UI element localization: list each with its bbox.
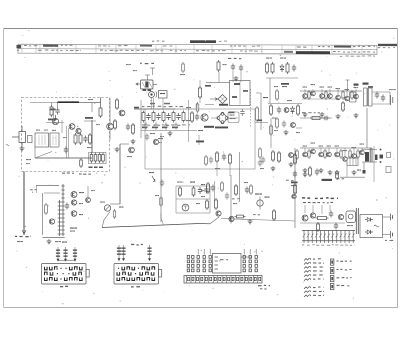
ground xyxy=(352,170,357,175)
connector CN3 label xyxy=(258,285,270,287)
diagonal wire xyxy=(35,152,52,159)
driver module U1 xyxy=(346,211,356,223)
legend battery symbols xyxy=(331,259,334,290)
tuner top rail heavy xyxy=(58,101,79,103)
transistor Q2 xyxy=(69,124,75,130)
input trimmer C1 xyxy=(28,136,33,143)
resistor R11 xyxy=(152,111,155,123)
label xyxy=(70,228,77,229)
capacitor C29 xyxy=(329,211,333,218)
capacitor C31 xyxy=(209,157,213,164)
IF lower bus xyxy=(141,130,197,132)
transistor Q25 xyxy=(71,200,76,205)
resistor R13 xyxy=(172,111,175,123)
label stems xyxy=(304,205,306,213)
wire xyxy=(91,120,93,153)
label row xyxy=(142,124,190,126)
ground xyxy=(354,113,359,118)
ground xyxy=(336,114,341,119)
wire xyxy=(140,100,142,138)
label xyxy=(287,100,292,101)
ground xyxy=(271,166,276,171)
wire xyxy=(346,89,348,96)
resistor R51 xyxy=(270,124,273,136)
label xyxy=(272,118,276,119)
rail xyxy=(300,90,362,92)
label xyxy=(266,58,272,59)
right end text xyxy=(389,89,396,90)
legend text column xyxy=(313,258,324,296)
connector B lead 2 xyxy=(121,245,125,261)
coil can T1 xyxy=(35,133,49,147)
rail xyxy=(300,147,372,149)
tuner module dashed enclosure xyxy=(22,98,110,172)
ground xyxy=(234,76,239,81)
connector CN3 pin strip xyxy=(184,276,262,284)
transistor Q3 xyxy=(76,128,81,133)
resistor R7 xyxy=(116,98,119,110)
resistor R28 xyxy=(215,198,218,210)
resistor R48 xyxy=(297,104,300,116)
resistor R14 xyxy=(182,111,185,123)
capacitor C37 xyxy=(160,180,164,187)
label xyxy=(360,144,365,145)
transistor Q30 xyxy=(201,114,208,121)
mid rail xyxy=(268,103,302,105)
capacitor C24 xyxy=(222,154,226,161)
arrow mark xyxy=(22,230,26,234)
wire xyxy=(51,103,53,106)
resistor R39 xyxy=(45,203,48,215)
resistor R31 xyxy=(207,182,210,194)
transistor Q26 xyxy=(49,219,54,224)
wire xyxy=(320,148,322,152)
resistor R19 xyxy=(286,62,289,74)
pot labels xyxy=(119,207,124,208)
label dark xyxy=(291,182,298,184)
wire xyxy=(383,234,391,236)
capacitor C5 xyxy=(126,124,130,131)
resistor R8 xyxy=(114,119,117,130)
IF can T3 xyxy=(230,81,251,106)
filter feet xyxy=(143,89,147,91)
transistor Q18 xyxy=(327,152,332,157)
ground xyxy=(303,168,308,173)
resistor R15 xyxy=(191,111,194,123)
wire xyxy=(296,127,302,129)
resistor R54 xyxy=(196,102,199,113)
capacitor C3 xyxy=(83,136,87,143)
wire xyxy=(383,216,391,218)
label xyxy=(228,58,241,59)
label text xyxy=(62,172,74,174)
switch column S4a xyxy=(243,249,245,272)
lower rail xyxy=(300,117,332,119)
wire xyxy=(66,126,68,158)
ground xyxy=(303,112,308,117)
wire xyxy=(205,104,214,106)
resistor R49 xyxy=(276,117,279,129)
tall wire xyxy=(347,80,349,91)
resistor R40 xyxy=(316,217,329,220)
relay box K1 xyxy=(213,254,242,274)
table caption text xyxy=(152,40,227,43)
resistor R1 xyxy=(50,105,53,117)
label xyxy=(303,146,308,147)
resistor R47 xyxy=(270,104,273,116)
transistor Q37 xyxy=(86,198,91,203)
ground xyxy=(284,130,289,135)
label dark xyxy=(48,119,56,121)
label dark xyxy=(257,120,262,122)
IF transformer T4 xyxy=(364,88,368,106)
terminal strip xyxy=(347,158,358,166)
switch column S3a xyxy=(197,249,199,272)
transistor Q14 xyxy=(354,94,359,99)
resistor xyxy=(357,149,359,159)
resistor R44 xyxy=(250,184,253,195)
wire xyxy=(329,89,331,94)
ladder labels xyxy=(302,244,352,246)
capacitor C8 xyxy=(166,113,170,120)
resistor R41 xyxy=(317,222,320,232)
transistor Q34 xyxy=(153,139,158,144)
transistor Q20 xyxy=(343,157,348,162)
resistor xyxy=(351,90,353,100)
connector B lead 3 xyxy=(147,245,151,261)
wire xyxy=(216,163,218,176)
wire xyxy=(346,162,348,177)
capacitor C20 xyxy=(380,155,384,159)
label xyxy=(263,97,268,98)
title block table xyxy=(16,44,377,54)
label xyxy=(244,182,248,183)
table right header text xyxy=(378,44,397,48)
label row xyxy=(302,197,310,199)
wire xyxy=(214,181,216,202)
ground xyxy=(248,219,253,224)
switch column S2b xyxy=(192,256,194,272)
transistor Q8 xyxy=(303,94,308,99)
label xyxy=(30,189,37,190)
dashed vertical xyxy=(250,89,252,127)
wire xyxy=(294,148,296,228)
switch column S2a xyxy=(187,256,189,272)
wire xyxy=(153,98,155,109)
wire xyxy=(353,148,355,154)
resistor xyxy=(325,90,327,100)
capacitor C28 xyxy=(65,203,69,210)
lead label xyxy=(62,242,67,243)
diode D1 xyxy=(280,64,284,72)
transistor Q28 xyxy=(310,213,315,218)
tick mark xyxy=(6,144,9,146)
speaker lead xyxy=(363,162,365,171)
wire xyxy=(53,108,55,120)
resistor xyxy=(340,149,342,159)
transistor Q24 xyxy=(71,192,77,198)
speaker label LS xyxy=(322,179,333,181)
output transformer T5 xyxy=(365,152,369,162)
transistor Q4 xyxy=(107,123,114,130)
switch column S4b xyxy=(249,249,251,272)
transistor Q22 xyxy=(360,150,365,155)
supply end ticks xyxy=(15,236,31,238)
wire xyxy=(104,212,110,221)
capacitor C16 xyxy=(375,92,379,99)
label xyxy=(201,184,205,185)
transistor Q29 xyxy=(338,214,343,219)
label xyxy=(280,58,286,59)
resistor R2 xyxy=(99,106,102,118)
wire xyxy=(260,93,262,130)
label text xyxy=(79,173,91,174)
potentiometer P1 xyxy=(104,205,110,211)
capacitor C4 xyxy=(64,147,68,154)
wire xyxy=(321,89,323,94)
connector A lead 3 xyxy=(73,247,77,262)
label xyxy=(343,150,348,151)
antenna input wire xyxy=(12,136,19,138)
resistor R16 xyxy=(217,60,220,72)
terminal top xyxy=(390,214,392,221)
capacitor C22 xyxy=(198,187,202,194)
resistor xyxy=(308,90,310,100)
wire xyxy=(160,213,162,218)
wire xyxy=(42,193,44,235)
label xyxy=(336,88,341,89)
wire xyxy=(36,185,59,187)
label xyxy=(296,132,300,133)
wire xyxy=(228,117,238,119)
capacitor C2 xyxy=(55,108,59,115)
resistor R6 xyxy=(80,158,83,168)
diode D6 xyxy=(365,230,373,234)
resistor R55 xyxy=(256,106,259,122)
wire xyxy=(91,103,93,113)
capacitor C26 xyxy=(245,187,249,194)
ground xyxy=(115,147,120,152)
wire xyxy=(199,80,201,88)
resistor R23 xyxy=(309,166,312,177)
component xyxy=(386,167,391,173)
coil can T2 xyxy=(50,133,59,147)
ground xyxy=(131,139,136,144)
osc mid rail xyxy=(176,198,210,200)
resistor R46 xyxy=(276,89,279,101)
capacitor C12 xyxy=(231,64,235,71)
label xyxy=(354,87,359,88)
resistor R4 xyxy=(79,133,82,145)
capacitor C10 xyxy=(195,114,199,121)
capacitor C41 xyxy=(154,123,158,130)
dark cluster xyxy=(281,83,289,85)
resistor R43 xyxy=(221,181,224,192)
ground xyxy=(335,170,340,175)
wire xyxy=(55,115,57,118)
value labels xyxy=(142,127,147,129)
wire xyxy=(79,102,101,104)
label xyxy=(286,180,294,181)
supply wire xyxy=(23,172,25,236)
wire xyxy=(188,100,190,142)
ground xyxy=(303,172,308,177)
legend arrow symbols xyxy=(304,258,311,297)
label xyxy=(126,64,131,65)
tuner labels xyxy=(36,130,40,131)
capacitor C33 xyxy=(261,157,265,164)
label xyxy=(223,64,227,65)
ground antenna xyxy=(20,146,25,151)
capacitor C38 xyxy=(145,134,149,141)
ground xyxy=(289,162,294,167)
label xyxy=(274,130,278,131)
capacitor C18 xyxy=(323,116,330,120)
wire xyxy=(218,72,220,83)
resistor R21 xyxy=(342,101,345,112)
capacitor C40 xyxy=(144,123,148,130)
ceramic filter X1 xyxy=(141,80,154,89)
ground xyxy=(168,131,173,136)
label xyxy=(303,87,308,88)
table lower right text xyxy=(340,55,375,57)
wire xyxy=(196,103,198,108)
label xyxy=(131,244,143,246)
wire xyxy=(355,89,357,94)
transistor Q9 xyxy=(311,91,316,96)
capacitor C21 xyxy=(315,169,319,176)
transistor Q33 xyxy=(129,147,135,153)
label dark xyxy=(354,84,359,86)
wire xyxy=(328,148,330,152)
wire xyxy=(366,108,368,148)
connector CN2 label xyxy=(131,286,140,287)
transistor Q5 xyxy=(119,110,125,116)
capacitor C41 xyxy=(240,109,244,116)
volume wire xyxy=(119,144,121,204)
transistor Q23 xyxy=(229,216,234,221)
resistor R33 xyxy=(272,150,275,162)
wire xyxy=(175,186,177,213)
lead bus xyxy=(58,260,75,262)
value labels xyxy=(150,103,155,105)
transistor Q15 xyxy=(303,152,308,157)
transistor Q31 xyxy=(284,108,289,113)
resistor xyxy=(349,149,351,159)
base wire xyxy=(46,122,64,124)
input filter L1 xyxy=(19,132,26,143)
transistor Q21 xyxy=(352,154,357,159)
zener stack D4a xyxy=(58,200,62,236)
label row xyxy=(303,202,333,204)
wire xyxy=(304,89,306,94)
resistor R30 xyxy=(229,153,232,165)
label xyxy=(335,146,340,147)
wire xyxy=(300,222,345,224)
zener stack D4b xyxy=(61,184,64,236)
wire xyxy=(34,147,36,158)
terminal bottom xyxy=(390,231,392,238)
ground xyxy=(320,112,325,117)
wire xyxy=(241,256,252,258)
trimmer VC1 xyxy=(257,200,263,206)
label row xyxy=(142,106,183,108)
label xyxy=(319,146,324,147)
resistor R38 xyxy=(273,209,276,221)
wire xyxy=(147,75,149,80)
ground xyxy=(319,168,324,173)
label xyxy=(150,133,155,134)
trimmer label xyxy=(255,194,262,195)
label xyxy=(180,74,185,75)
wire xyxy=(239,152,241,202)
wire xyxy=(151,98,153,110)
label marks xyxy=(140,63,154,64)
label xyxy=(79,192,84,193)
oscillator Q20 xyxy=(182,204,189,211)
resistor R3 xyxy=(74,133,77,145)
piezo element xyxy=(355,208,357,234)
capacitor C25 xyxy=(211,185,215,192)
bottom cluster wire xyxy=(255,122,268,124)
label xyxy=(327,146,332,147)
ring modulator X3 xyxy=(217,113,228,124)
transistor Q36 xyxy=(289,153,294,158)
connector A lead 2 xyxy=(63,247,67,262)
diode D5 xyxy=(365,218,373,222)
transistor Q22 xyxy=(216,211,221,216)
label xyxy=(155,195,159,196)
resistor R35 xyxy=(294,153,297,165)
wire xyxy=(312,148,314,149)
label xyxy=(186,120,190,121)
resistor R50 xyxy=(113,209,115,219)
label xyxy=(320,87,325,88)
ring label xyxy=(215,127,228,129)
resistor R24 xyxy=(336,170,339,180)
label xyxy=(345,89,350,90)
IF rail xyxy=(134,108,175,110)
capacitor C14 xyxy=(292,65,296,72)
transistor Q11 xyxy=(328,94,333,99)
label xyxy=(328,87,333,88)
capacitor C19 xyxy=(375,155,378,161)
transistor Q35 xyxy=(292,194,296,198)
wire xyxy=(199,223,210,225)
node dot xyxy=(57,102,59,104)
resistor R12 xyxy=(162,111,165,123)
capacitor C9 xyxy=(176,113,180,120)
transistor Q19 xyxy=(335,152,340,157)
transistor Q12 xyxy=(336,95,341,100)
resistor R42 xyxy=(205,155,208,166)
wire xyxy=(270,118,272,148)
label xyxy=(232,198,240,199)
resistor xyxy=(324,149,326,159)
transistor Q17 xyxy=(319,152,324,157)
resistor xyxy=(308,149,310,159)
wire xyxy=(160,133,162,222)
resistor R46 xyxy=(182,62,185,73)
IF can T6 xyxy=(350,92,357,102)
balance ladder RV1 xyxy=(302,231,355,244)
capacitor C35 xyxy=(277,107,281,114)
label xyxy=(260,168,264,169)
ground xyxy=(328,170,333,175)
resistor R22 xyxy=(310,117,322,120)
resistor R36 xyxy=(294,183,297,195)
wire xyxy=(120,143,129,145)
